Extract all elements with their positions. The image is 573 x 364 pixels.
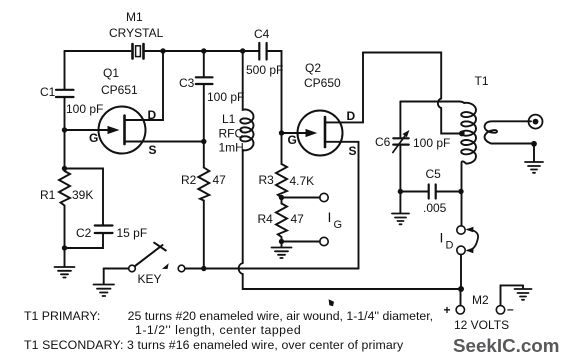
transformer T1 primary [459, 74, 489, 226]
svg-text:12 VOLTS: 12 VOLTS [454, 318, 509, 332]
wire ID to bottom node [460, 255, 462, 287]
resistor R2 [181, 142, 226, 269]
svg-text:C6: C6 [375, 135, 391, 149]
svg-text:I: I [328, 209, 332, 225]
node C6/C5 [398, 189, 403, 194]
node top-1 [160, 48, 165, 53]
resistor R3 [259, 133, 315, 198]
svg-text:R2: R2 [181, 173, 197, 187]
svg-text:L1: L1 [222, 112, 236, 126]
terminal ID top [457, 226, 465, 234]
ground under key [94, 269, 115, 297]
svg-text:100 pF: 100 pF [66, 102, 103, 116]
battery M2 [444, 292, 515, 332]
svg-text:S: S [349, 144, 357, 158]
svg-text:R1: R1 [40, 188, 56, 202]
wire tank rail [400, 101, 459, 103]
svg-text:–: – [507, 302, 514, 316]
wire tap down to center tap [441, 108, 459, 134]
node secondary bottom [531, 141, 537, 147]
svg-text:C3: C3 [179, 76, 195, 90]
node R2 bottom [201, 266, 206, 271]
svg-text:M2: M2 [472, 293, 489, 307]
svg-text:KEY: KEY [138, 272, 162, 286]
svg-text:G: G [288, 133, 297, 147]
svg-text:500 pF: 500 pF [246, 63, 283, 77]
terminal ID bottom [457, 246, 465, 254]
svg-text:CRYSTAL: CRYSTAL [109, 26, 164, 40]
svg-text:+: + [444, 303, 451, 317]
key switch [104, 243, 359, 286]
ground under R4 [272, 242, 292, 259]
wire coax ground [533, 144, 535, 162]
terminal IG top [282, 197, 320, 199]
node top-2 [201, 48, 206, 53]
svg-text:R4: R4 [258, 212, 274, 226]
svg-text:100 pF: 100 pF [207, 90, 244, 104]
svg-text:47: 47 [213, 173, 227, 187]
capacitor C1 [40, 51, 103, 116]
watermark SeekIC.com [453, 335, 559, 357]
transistor Q2 [282, 53, 364, 269]
node center tap [459, 131, 465, 137]
svg-text:D: D [148, 108, 157, 122]
node Q2 gate [279, 130, 284, 135]
resistor R1 [40, 171, 93, 250]
capacitor C2 [65, 169, 148, 249]
svg-text:C4: C4 [254, 27, 270, 41]
node G1 [62, 127, 67, 132]
wire C1 down [64, 98, 66, 172]
svg-text:100 pF: 100 pF [413, 136, 450, 150]
svg-text:1mH: 1mH [219, 141, 244, 155]
wire L1 to bottom rail [243, 274, 461, 289]
node R1 bottom [62, 245, 67, 250]
svg-text:Q1: Q1 [103, 66, 119, 80]
ground M2 [515, 285, 532, 299]
capacitor C5 [400, 167, 461, 215]
svg-text:CP651: CP651 [101, 83, 138, 97]
caption T1 primary line 2 [135, 323, 301, 337]
capacitor C6 variable [375, 102, 450, 213]
capacitor C3 [179, 51, 244, 142]
svg-text:D: D [446, 240, 454, 252]
svg-text:.005: .005 [423, 201, 447, 215]
resistor R4 [258, 198, 305, 242]
svg-text:RFC: RFC [219, 127, 244, 141]
node top-3 [240, 48, 245, 53]
terminal IG bottom [282, 241, 320, 243]
svg-text:M1: M1 [126, 10, 143, 24]
svg-text:C2: C2 [76, 226, 92, 240]
wire top rail left [65, 50, 131, 52]
svg-text:39K: 39K [72, 188, 93, 202]
wire top rail middle [145, 50, 259, 52]
svg-text:47: 47 [291, 212, 305, 226]
caption T1 secondary [24, 338, 403, 352]
svg-text:C1: C1 [40, 85, 56, 99]
ground under C6 [392, 214, 409, 225]
transformer T1 secondary [485, 121, 531, 143]
svg-text:G: G [334, 219, 343, 231]
node C5 right [458, 189, 463, 194]
wire hop L1 over key wire [239, 263, 243, 274]
svg-text:CP650: CP650 [304, 76, 341, 90]
svg-text:Q2: Q2 [305, 61, 321, 75]
wire drain rail Q2 to tap [363, 53, 441, 99]
svg-text:R3: R3 [259, 173, 275, 187]
crystal M1 [109, 10, 164, 59]
jumper ID [466, 227, 479, 253]
node R3/R4 [279, 195, 284, 200]
svg-text:T1: T1 [475, 74, 489, 88]
node Q1 S / C3 [201, 139, 206, 144]
node R1 top [62, 166, 67, 171]
caption T1 primary line 1 [24, 309, 433, 323]
coax connector [529, 115, 543, 129]
wire C4 to Q2 gate [267, 51, 282, 133]
svg-text:S: S [149, 143, 157, 157]
svg-text:4.7K: 4.7K [290, 174, 315, 188]
inductor L1 [219, 51, 254, 263]
capacitor C4 [246, 27, 283, 77]
wire hop tap over tank rail [438, 99, 441, 109]
svg-text:I: I [440, 230, 444, 246]
svg-text:D: D [347, 109, 356, 123]
mouse cursor [329, 299, 334, 306]
ground under coax [525, 162, 543, 173]
ground under R1 [55, 250, 75, 278]
wire M2 minus to ground [501, 285, 524, 305]
transistor Q1 [65, 53, 204, 157]
node R4 bottom [279, 239, 284, 244]
node bottom rail right [458, 286, 464, 292]
svg-text:C5: C5 [426, 167, 442, 181]
svg-text:15 pF: 15 pF [117, 226, 148, 240]
svg-text:G: G [89, 131, 98, 145]
